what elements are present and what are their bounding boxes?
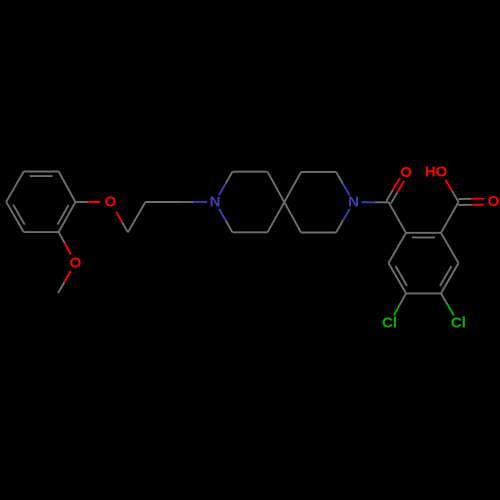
svg-text:O: O — [400, 164, 412, 181]
bond C2-C3 right benzene — [441, 233, 459, 263]
bond C6-C1 left benzene — [59, 172, 76, 203]
bond N1-C6 piperidine left — [219, 209, 226, 221]
bond spiro-C5 piperidine right — [284, 202, 301, 232]
bond C4-Cl2 — [441, 293, 447, 304]
bond N2-C carbonyl — [362, 201, 376, 203]
double bond C=O amide — [391, 192, 398, 203]
bond CH2-CH2 chain — [128, 202, 145, 232]
bond C2-C3 left benzene — [24, 231, 59, 233]
bond CH2-N1 — [180, 201, 193, 203]
bond C4-C5 right benzene — [406, 292, 441, 294]
bond C5-C6 left benzene — [24, 171, 59, 173]
svg-text:N: N — [348, 194, 359, 211]
double bond inner line C5-C6 — [30, 175, 53, 177]
bond N2-C6 piperidine right — [343, 209, 350, 221]
bond C2-C3 piperidine right — [301, 171, 336, 173]
double bond C=O acid — [459, 204, 472, 206]
bond C5-C6 piperidine right — [301, 232, 336, 234]
bond C1-O1 aryl ether — [75, 201, 87, 203]
bond C4-C5 left benzene — [6, 172, 24, 202]
double bond inner line C5-C6 right benzene — [396, 266, 408, 286]
svg-text:Cl: Cl — [382, 315, 397, 332]
bond O1-CH2 chain — [116, 212, 122, 222]
double bond inner line C3-C4 — [13, 205, 25, 225]
svg-text:N: N — [210, 194, 221, 211]
bond C2-C3 piperidine left — [233, 171, 268, 173]
bond C3-C4 left benzene — [6, 202, 24, 232]
bond N2-C2 piperidine right — [343, 184, 350, 196]
bond C5-Cl1 — [400, 293, 406, 304]
svg-text:O: O — [105, 194, 117, 211]
svg-text:O: O — [70, 254, 82, 271]
double bond inner line C1-C2 — [58, 205, 69, 225]
bond carbonyl C - ipso C right benzene — [389, 202, 406, 233]
double bond inner line C3-C4 right benzene — [440, 266, 452, 286]
bond C2-O2 methoxy — [59, 232, 65, 243]
bond O2-CH3 methyl — [64, 271, 70, 282]
bond C3-spiro piperidine right — [284, 172, 301, 202]
bond C1-C2 right benzene — [406, 232, 441, 234]
bond C5-C6 right benzene — [389, 263, 407, 293]
double bond inner line C1-C2 right benzene — [412, 236, 435, 238]
bond C-OH acid — [452, 191, 459, 202]
svg-text:O: O — [488, 193, 500, 210]
bond C3-spiro piperidine left — [268, 172, 285, 203]
bond C1-C2 left benzene — [59, 202, 76, 232]
bond spiro-C5 piperidine left — [268, 202, 285, 232]
bond N1-C2 piperidine left — [219, 183, 226, 195]
bond CH2-CH2 chain2 — [145, 201, 180, 203]
bond C6-C1 right benzene — [389, 233, 407, 263]
bond C3-C4 right benzene — [441, 263, 459, 293]
svg-text:Cl: Cl — [451, 315, 466, 332]
bond C5-C6 piperidine left — [233, 231, 268, 233]
svg-text:HO: HO — [425, 163, 448, 180]
bond C2-COOH carbon — [441, 202, 459, 233]
